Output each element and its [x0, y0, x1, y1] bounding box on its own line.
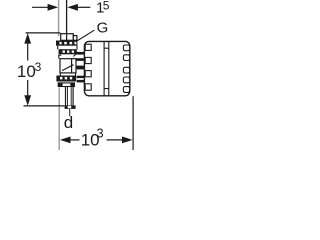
knurl band 2 [59, 49, 77, 54]
dim line bottom [60, 137, 133, 144]
svg-text:3: 3 [97, 127, 104, 141]
valve side port [73, 36, 77, 41]
dim line vertical [24, 33, 31, 106]
svg-text:G: G [97, 19, 109, 36]
centerline axis bottom (gray) [58, 88, 60, 151]
lower clamp bottom wall [77, 80, 85, 83]
bonnet white row [58, 46, 77, 50]
valve body box [60, 59, 76, 73]
union nut knurl band [56, 76, 76, 82]
outlet spigot top wall [76, 52, 84, 55]
union nut top row [60, 73, 75, 76]
body outline (right housing) [84, 41, 129, 95]
connector bar middle [77, 66, 85, 70]
leader line G [77, 30, 95, 41]
middle seam lines [104, 42, 109, 96]
inner notches left column [85, 44, 91, 90]
svg-text:5: 5 [103, 0, 110, 12]
flange [58, 83, 74, 87]
handwheel knurl band [56, 41, 77, 46]
dimension 10_3 bottom: extension right [132, 96, 134, 150]
dimension 1_5 line right [78, 6, 91, 8]
svg-text:3: 3 [35, 60, 42, 74]
valve cap [61, 34, 77, 41]
pipe outer walls [66, 87, 74, 106]
dimension 10_3 left: extension top [26, 32, 61, 34]
section diagonal [62, 65, 74, 71]
svg-text:d: d [64, 113, 73, 132]
outlet spigot bottom wall [76, 58, 84, 61]
valve spindle axis line [66, 0, 68, 34]
pipe centerline stub [69, 109, 71, 116]
extension bottom [24, 105, 65, 107]
pipe inner walls [68, 87, 72, 106]
lower clamp top wall [77, 76, 85, 78]
pipe end nut [65, 105, 76, 109]
svg-text:10: 10 [17, 62, 36, 81]
right notch column [123, 45, 129, 92]
step row / chamfer [59, 53, 77, 59]
dimension 1_5 line left [32, 4, 90, 11]
centerline axis top (gray) [58, 0, 60, 36]
